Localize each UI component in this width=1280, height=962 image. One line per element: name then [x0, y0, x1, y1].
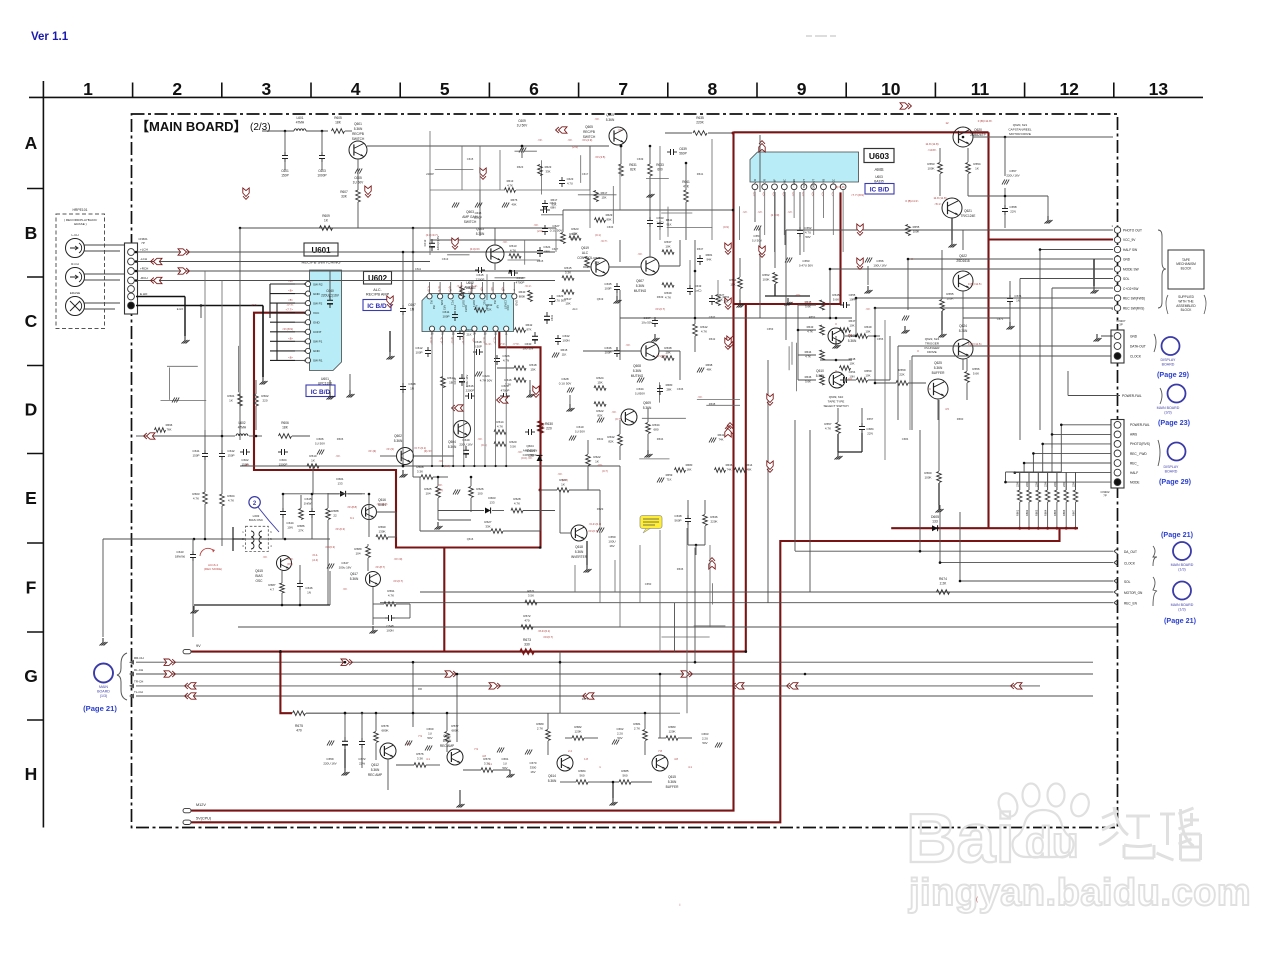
svg-text:5.6K: 5.6K	[833, 297, 839, 301]
svg-text:C629: C629	[557, 294, 564, 298]
terminal 9V	[183, 644, 201, 654]
resistor R654 1K	[966, 148, 981, 196]
resistor R640 880K	[519, 290, 533, 302]
svg-text:74K: 74K	[719, 437, 724, 441]
terminal 5V(CPU)	[183, 817, 212, 825]
U602 label box	[364, 272, 392, 297]
svg-text:C657: C657	[1009, 169, 1017, 173]
vertical arrows column mid	[387, 224, 863, 472]
svg-text:1K: 1K	[975, 166, 979, 170]
svg-text:R651: R651	[729, 278, 737, 282]
svg-text:MUTING: MUTING	[634, 289, 647, 293]
svg-text:(0)=4.9>: (0)=4.9>	[835, 185, 846, 189]
svg-text:48K: 48K	[707, 367, 712, 371]
capacitor C606 1U 50V	[315, 437, 325, 455]
resistor R641 47K	[682, 163, 690, 240]
svg-text:R621: R621	[593, 256, 601, 260]
capacitor C610 1U 50V	[569, 425, 585, 441]
svg-text:PC2: PC2	[453, 305, 457, 311]
wire -RCH	[136, 280, 555, 282]
svg-text:5.36N: 5.36N	[350, 577, 359, 581]
svg-text:MOTOR DRIVE: MOTOR DRIVE	[1009, 132, 1031, 136]
svg-text:4.7U: 4.7U	[805, 230, 811, 234]
svg-text:R639: R639	[657, 295, 664, 299]
svg-text:R642: R642	[709, 337, 716, 341]
arrow up col8	[759, 141, 765, 152]
svg-text:PHOTO(RVS): PHOTO(RVS)	[1130, 442, 1150, 446]
svg-text:11K: 11K	[562, 352, 567, 356]
svg-text:F: F	[26, 578, 37, 598]
bottom mid verticals	[575, 520, 710, 652]
svg-text:(Page 29): (Page 29)	[1159, 477, 1192, 486]
svg-text:<0.4-: <0.4-	[312, 553, 318, 557]
svg-text:Q622, 624: Q622, 624	[925, 337, 940, 341]
brace SOL/MOTOR/REC	[1153, 577, 1157, 606]
svg-text:<7.7>: <7.7>	[287, 303, 294, 307]
wire Q602 region	[368, 449, 471, 530]
svg-text:100K: 100K	[924, 475, 931, 479]
arrow -RCH	[151, 277, 162, 283]
capacitor C605 1U 50V	[353, 169, 365, 185]
svg-text:R641: R641	[718, 433, 725, 437]
svg-text:R655: R655	[913, 225, 920, 229]
svg-text:560: 560	[579, 773, 584, 777]
wire mid column x695	[694, 240, 697, 310]
fan placeholder	[0, 0, 1, 1]
svg-text:1U 50V: 1U 50V	[315, 441, 325, 445]
U603 IC B/D tag	[865, 184, 894, 195]
ground cluster mid	[400, 293, 660, 478]
svg-text:<0.4>: <0.4>	[287, 557, 294, 561]
TAPE MECHANISM BLOCK box	[1168, 250, 1204, 289]
coil L601 47MH	[262, 116, 328, 132]
svg-text:Ver 1.1: Ver 1.1	[31, 31, 69, 43]
svg-text:10: 10	[881, 79, 901, 99]
svg-text:Q605: Q605	[585, 125, 593, 129]
svg-text:9: 9	[797, 79, 807, 99]
U601 part number and IC B/D tag	[306, 377, 335, 397]
svg-text:GND: GND	[313, 292, 321, 296]
svg-text:AMS: AMS	[874, 167, 883, 172]
wire Q618 area	[540, 490, 604, 573]
svg-text:R678: R678	[381, 724, 389, 728]
svg-text:<0>(3): <0>(3)	[368, 449, 376, 453]
svg-text:MODE: MODE	[1130, 480, 1140, 484]
SUPPLIED WITH THE ASSEMBLED BLOCK note	[1166, 295, 1206, 314]
svg-text:74K: 74K	[727, 467, 732, 471]
transistor Q625	[928, 361, 948, 399]
svg-text:10K: 10K	[850, 323, 855, 327]
resistor column R661-R667 22K	[1016, 472, 1078, 530]
capacitor C635 100P	[604, 282, 620, 293]
svg-text:(0.9): (0.9)	[723, 225, 729, 229]
svg-text:SWITCH: SWITCH	[464, 220, 477, 224]
capacitor C658 22N	[1002, 188, 1017, 228]
wire H row bus	[306, 712, 660, 715]
op-amp U602 ALC REC/PB AMP block	[422, 289, 518, 336]
svg-text:SW R2: SW R2	[313, 282, 323, 286]
svg-text:R620: R620	[509, 440, 517, 444]
resistor R623 15K	[569, 227, 581, 240]
resistor R655 100K	[939, 288, 954, 338]
svg-text:Q619: Q619	[581, 246, 589, 250]
resistor R688 22	[326, 493, 339, 605]
svg-text:SW R1: SW R1	[313, 359, 323, 363]
svg-text:15K: 15K	[565, 301, 570, 305]
svg-text:<8>: <8>	[288, 336, 293, 340]
svg-text:C663: C663	[702, 732, 709, 736]
svg-text:50V: 50V	[617, 736, 622, 740]
svg-text:4.7K: 4.7K	[514, 501, 520, 505]
svg-text:E: E	[25, 488, 37, 508]
svg-text:R640: R640	[519, 290, 526, 294]
svg-text:9V: 9V	[196, 644, 201, 648]
svg-text:REC_EN: REC_EN	[1124, 602, 1138, 606]
transistor Q624	[953, 324, 973, 359]
svg-text:62K: 62K	[487, 307, 492, 311]
capacitor C637 10u 50V	[641, 316, 658, 327]
svg-text:R634: R634	[657, 437, 664, 441]
svg-text:R-CH: R-CH	[71, 262, 79, 266]
resistor R632 82K	[607, 420, 622, 460]
svg-text:100U 16V: 100U 16V	[873, 263, 886, 267]
diode D604 133 in red bus	[527, 449, 543, 461]
svg-text:R660: R660	[924, 471, 932, 475]
svg-text:(3/3): (3/3)	[1164, 411, 1171, 415]
svg-text:R606: R606	[281, 421, 289, 425]
svg-text:R676: R676	[511, 198, 518, 202]
svg-text:R671: R671	[527, 589, 535, 593]
arrow down col3	[243, 188, 249, 199]
svg-text:22K: 22K	[1034, 482, 1038, 487]
svg-text:50V: 50V	[427, 736, 432, 740]
svg-text:150P: 150P	[281, 173, 288, 177]
svg-text:R683: R683	[466, 328, 473, 332]
svg-text:0 (B)=11.5>: 0 (B)=11.5>	[968, 282, 982, 286]
svg-text:R682: R682	[574, 725, 582, 729]
svg-text:R615: R615	[564, 266, 572, 270]
red stray parenthesis	[680, 897, 978, 907]
resistor R638 10K	[662, 346, 674, 360]
svg-text:1N: 1N	[1016, 298, 1020, 302]
svg-text:<0>: <0>	[518, 450, 523, 454]
svg-text:133: 133	[932, 519, 938, 523]
svg-text:AWS: AWS	[1130, 433, 1137, 437]
svg-text:9.1: 9.1	[350, 516, 354, 520]
svg-text:R659: R659	[666, 473, 673, 477]
svg-text:RR: RR	[418, 687, 422, 691]
svg-text:C671: C671	[997, 317, 1004, 321]
svg-text:2.7K: 2.7K	[634, 726, 640, 730]
capacitor C634 220U 16V	[453, 374, 469, 387]
svg-text:【MAIN BOARD】: 【MAIN BOARD】	[136, 119, 247, 134]
svg-text:560P: 560P	[674, 518, 681, 522]
label trigger	[925, 337, 941, 354]
transistor Q614	[548, 755, 573, 783]
svg-text:C635: C635	[604, 282, 612, 286]
svg-text:R685: R685	[621, 769, 629, 773]
resistor R686 27K	[297, 495, 305, 532]
resistor R631 82K	[619, 145, 637, 176]
svg-text:REC_: REC_	[1130, 461, 1139, 465]
wire Q607 row	[620, 240, 680, 266]
svg-text:220K: 220K	[696, 120, 704, 124]
svg-text:680K: 680K	[451, 728, 458, 732]
svg-text:7: 7	[618, 79, 628, 99]
svg-text:<0>(8.7): <0>(8.7)	[375, 565, 385, 569]
svg-text:SOL: SOL	[1123, 277, 1130, 281]
svg-text:C684: C684	[902, 437, 909, 441]
svg-text:+LCH: +LCH	[140, 248, 148, 252]
svg-text:18K: 18K	[282, 425, 289, 429]
svg-text:RR-CH: RR-CH	[134, 656, 144, 660]
svg-text:C642: C642	[227, 449, 235, 453]
svg-text:MAIN BOARD: MAIN BOARD	[1171, 603, 1194, 607]
svg-text:104: 104	[425, 491, 430, 495]
svg-text:RL-CH: RL-CH	[134, 668, 143, 672]
resistor R652 100K	[762, 273, 810, 306]
svg-text:IC B/D: IC B/D	[870, 187, 890, 194]
svg-text:3.3K: 3.3K	[417, 469, 423, 473]
svg-text:<0.1>: <0.1>	[525, 284, 532, 288]
arrow -LCH	[151, 258, 162, 264]
svg-text:C612: C612	[415, 346, 423, 350]
svg-text:REC SW(FWD): REC SW(FWD)	[1123, 297, 1145, 301]
capacitor C645 1N(W)	[304, 495, 315, 539]
resistor R634 680	[645, 408, 660, 458]
svg-text:15K: 15K	[730, 282, 735, 286]
capacitor C641 150P	[192, 430, 208, 480]
svg-text:<2>: <2>	[821, 191, 825, 196]
svg-text:TR/C124E: TR/C124E	[961, 214, 976, 218]
svg-text:D: D	[25, 400, 38, 420]
svg-text:R632: R632	[597, 437, 604, 441]
svg-text:220K: 220K	[710, 519, 717, 523]
svg-text:<10.8>: <10.8>	[928, 148, 937, 152]
svg-text:ALC.: ALC.	[373, 288, 381, 292]
svg-text:100K: 100K	[913, 229, 920, 233]
svg-text:4700P: 4700P	[516, 280, 525, 284]
svg-text:5.36N: 5.36N	[354, 127, 363, 131]
resistor R691 4.7K	[373, 587, 410, 625]
misc tiny labels	[177, 157, 1004, 701]
svg-text:G: G	[24, 666, 38, 686]
svg-text:3P: 3P	[1119, 323, 1123, 327]
signal CLOCK	[940, 559, 1136, 565]
resistor R629 1K	[539, 478, 601, 525]
svg-text:0.6: 0.6	[848, 333, 852, 337]
capacitor C620 4700P	[500, 384, 510, 399]
svg-text:DISPLAY: DISPLAY	[1161, 358, 1177, 362]
MAIN BOARD 1/3 circle G row	[83, 664, 117, 714]
svg-text:R636: R636	[710, 515, 718, 519]
svg-text:VCC: VCC	[506, 305, 510, 311]
svg-text:Q618: Q618	[575, 545, 583, 549]
wires Q616 cell	[313, 466, 396, 537]
capacitor C660 1U 50V	[425, 727, 434, 751]
svg-text:94K: 94K	[707, 257, 712, 261]
svg-text:<8>: <8>	[288, 355, 293, 359]
transistor Q615	[255, 556, 291, 584]
svg-text:22K: 22K	[1062, 482, 1066, 487]
capacitor C672 22N	[344, 712, 366, 768]
svg-text:87K: 87K	[527, 327, 532, 331]
svg-text:A: A	[25, 133, 38, 153]
svg-text:BOARD: BOARD	[1165, 470, 1178, 474]
arrows on channel wires	[164, 659, 1022, 699]
capacitor C601 150P	[281, 131, 289, 177]
resistor R608 3.3K	[413, 465, 448, 492]
wires U602 pin drops	[431, 345, 507, 467]
MAIN BOARD title	[136, 119, 271, 134]
svg-text:Q610: Q610	[816, 369, 824, 373]
capacitor C621 68N	[537, 245, 551, 257]
capacitor C612 100P	[415, 346, 431, 357]
svg-text:(2.9): (2.9)	[572, 145, 578, 149]
svg-text:<0>=0.0): <0>=0.0)	[377, 502, 388, 506]
svg-text:104: 104	[355, 551, 360, 555]
svg-text:13: 13	[1149, 79, 1169, 99]
svg-text:R692: R692	[486, 303, 493, 307]
svg-text:4.7U: 4.7U	[567, 181, 573, 185]
svg-text:R622: R622	[593, 455, 601, 459]
svg-text:SWITCH: SWITCH	[352, 137, 365, 141]
svg-text:R687: R687	[268, 583, 276, 587]
svg-text:4.7K: 4.7K	[665, 295, 671, 299]
svg-text:22N: 22N	[867, 431, 873, 435]
svg-text:<1.4>: <1.4>	[471, 284, 478, 288]
svg-text:100P: 100P	[604, 286, 611, 290]
svg-text:<8.1>: <8.1>	[934, 202, 942, 206]
svg-text:R614: R614	[496, 420, 504, 424]
svg-text:50V: 50V	[502, 766, 507, 770]
wire GND mech	[908, 259, 1113, 310]
hatch C614	[453, 490, 460, 495]
wire REC SW FWD	[855, 298, 1113, 337]
svg-text:C659: C659	[326, 757, 334, 761]
svg-text:R660: R660	[957, 417, 964, 421]
capacitor C639 560P	[667, 147, 687, 155]
svg-text:10K: 10K	[865, 329, 870, 333]
svg-text:68N: 68N	[550, 205, 555, 209]
svg-text:0 (B)=11.5>: 0 (B)=11.5>	[968, 342, 982, 346]
svg-text:IN1: IN1	[430, 300, 434, 305]
svg-text:1U 50V: 1U 50V	[517, 123, 529, 127]
svg-text:(2.9): (2.9)	[537, 229, 543, 233]
svg-text:ERASE: ERASE	[70, 291, 80, 295]
signal SOL	[960, 578, 1131, 584]
transformer L603 BIAS OSC	[233, 514, 272, 552]
capacitor C662 2.2U 50V	[612, 727, 624, 745]
svg-text:IC B/D: IC B/D	[311, 389, 331, 396]
svg-text:R655: R655	[946, 292, 954, 296]
svg-text:220U 16V: 220U 16V	[323, 761, 336, 765]
R-CH head	[66, 262, 127, 287]
wire U602 top pins up	[430, 282, 515, 345]
svg-text:4.8: 4.8	[406, 742, 410, 746]
svg-text:MUTING: MUTING	[631, 374, 644, 378]
resistor R690 130K	[369, 520, 396, 539]
resistor R612 1B	[441, 376, 455, 388]
capacitor C602 150P	[240, 449, 250, 466]
resistor R601 1K	[227, 394, 242, 406]
svg-text:BIAS OSC: BIAS OSC	[249, 518, 264, 522]
svg-text:jingyan.baidu.com: jingyan.baidu.com	[908, 872, 1251, 914]
svg-text:VB: VB	[822, 179, 826, 183]
svg-text:DISPLAY: DISPLAY	[1164, 465, 1180, 469]
svg-text:R637: R637	[664, 240, 672, 244]
red annotations capstan	[905, 119, 992, 206]
svg-text:(Page 23): (Page 23)	[1158, 418, 1191, 427]
svg-text:GND: GND	[792, 179, 796, 185]
svg-text:C633: C633	[607, 225, 614, 229]
svg-text:(Page 21): (Page 21)	[83, 704, 117, 713]
svg-text:R654: R654	[973, 162, 981, 166]
svg-text:C610: C610	[576, 425, 584, 429]
svg-text:R617: R617	[601, 191, 608, 195]
svg-text:R636: R636	[677, 567, 684, 571]
svg-text:C613: C613	[442, 257, 449, 261]
svg-text:12: 12	[1059, 79, 1079, 99]
svg-text:<0>: <0>	[598, 463, 603, 467]
wire left col verticals	[205, 271, 222, 430]
hatch H row 1	[405, 741, 412, 746]
version label Ver 1.1	[31, 31, 69, 43]
resistor R619 3.3K	[561, 210, 577, 244]
svg-text:R619: R619	[569, 232, 577, 236]
svg-text:SW P1: SW P1	[313, 340, 323, 344]
svg-text:C633: C633	[695, 284, 702, 288]
svg-text:10u 50V: 10u 50V	[641, 320, 652, 324]
resistor R674 2.2K	[937, 577, 950, 594]
svg-text:C643: C643	[176, 550, 184, 554]
svg-text:Q607: Q607	[636, 279, 644, 283]
svg-text:(Page 29): (Page 29)	[1157, 370, 1190, 379]
svg-text:76K: 76K	[167, 427, 172, 431]
svg-text:DROUT: DROUT	[812, 179, 816, 189]
U602 pin annotations	[427, 285, 505, 343]
wire REC SW RVS	[874, 307, 1113, 336]
resistor R673 330 in 9V rail	[520, 638, 534, 654]
svg-text:C653: C653	[767, 327, 774, 331]
svg-text:3: 3	[262, 79, 272, 99]
svg-text:C+O2+SW: C+O2+SW	[1123, 287, 1138, 291]
svg-text:R623: R623	[517, 165, 524, 169]
wire vertical col x240	[240, 228, 413, 477]
connector CN307 3P	[1094, 319, 1146, 363]
capacitor C661 1U 50V	[497, 748, 509, 770]
svg-text:C611: C611	[415, 267, 422, 271]
svg-text:C615: C615	[467, 157, 474, 161]
svg-text:C662: C662	[617, 727, 624, 731]
U603 label box	[864, 149, 894, 184]
svg-text:<0>: <0>	[503, 240, 508, 244]
svg-text:16V: 16V	[609, 544, 614, 548]
capacitor C633 1u(C)	[647, 190, 664, 257]
svg-text:<0>(8.8): <0>(8.8)	[347, 505, 357, 509]
svg-text:R667: R667	[1072, 509, 1076, 516]
POWER-FAIL wire and label	[1068, 371, 1142, 398]
svg-text:4.7K: 4.7K	[507, 183, 513, 187]
svg-text:220: 220	[546, 426, 552, 430]
svg-text:91K: 91K	[667, 222, 672, 226]
svg-text:Q601: Q601	[354, 122, 362, 126]
svg-text:BUFFER: BUFFER	[932, 371, 945, 375]
svg-text:1U: 1U	[503, 761, 507, 765]
wire MODE SW	[829, 269, 1113, 319]
capacitor C671 1N	[1007, 281, 1022, 330]
svg-text:Q617: Q617	[350, 572, 358, 576]
